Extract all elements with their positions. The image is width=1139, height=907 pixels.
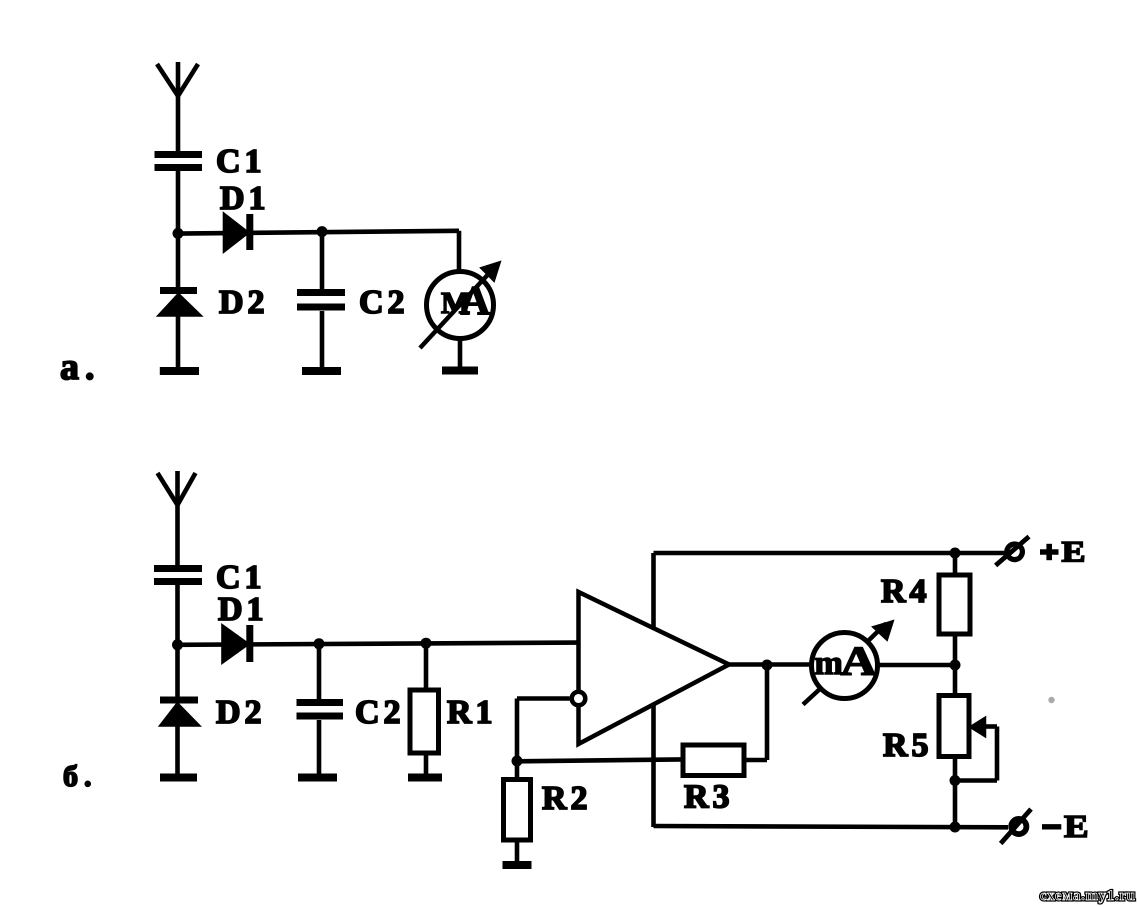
svg-text:E: E: [1062, 535, 1086, 568]
svg-text:E: E: [1064, 809, 1089, 844]
svg-text:схема.my1.ru: схема.my1.ru: [1040, 888, 1135, 904]
svg-text:R3: R3: [684, 779, 734, 816]
svg-text:C2: C2: [359, 284, 409, 321]
svg-text:R5: R5: [883, 727, 933, 764]
svg-text:б.: б.: [63, 760, 98, 793]
svg-text:C1: C1: [216, 143, 266, 180]
svg-text:m: m: [815, 645, 843, 682]
svg-text:C2: C2: [355, 694, 405, 731]
svg-text:D2: D2: [216, 694, 266, 731]
svg-text:D2: D2: [219, 284, 269, 321]
svg-text:R2: R2: [542, 780, 592, 817]
svg-text:a.: a.: [60, 346, 101, 388]
svg-text:D1: D1: [220, 180, 270, 217]
svg-text:D1: D1: [218, 591, 268, 628]
svg-text:R4: R4: [881, 573, 931, 610]
svg-text:A: A: [461, 277, 491, 323]
svg-text:R1: R1: [447, 694, 497, 731]
svg-text:A: A: [841, 638, 877, 684]
